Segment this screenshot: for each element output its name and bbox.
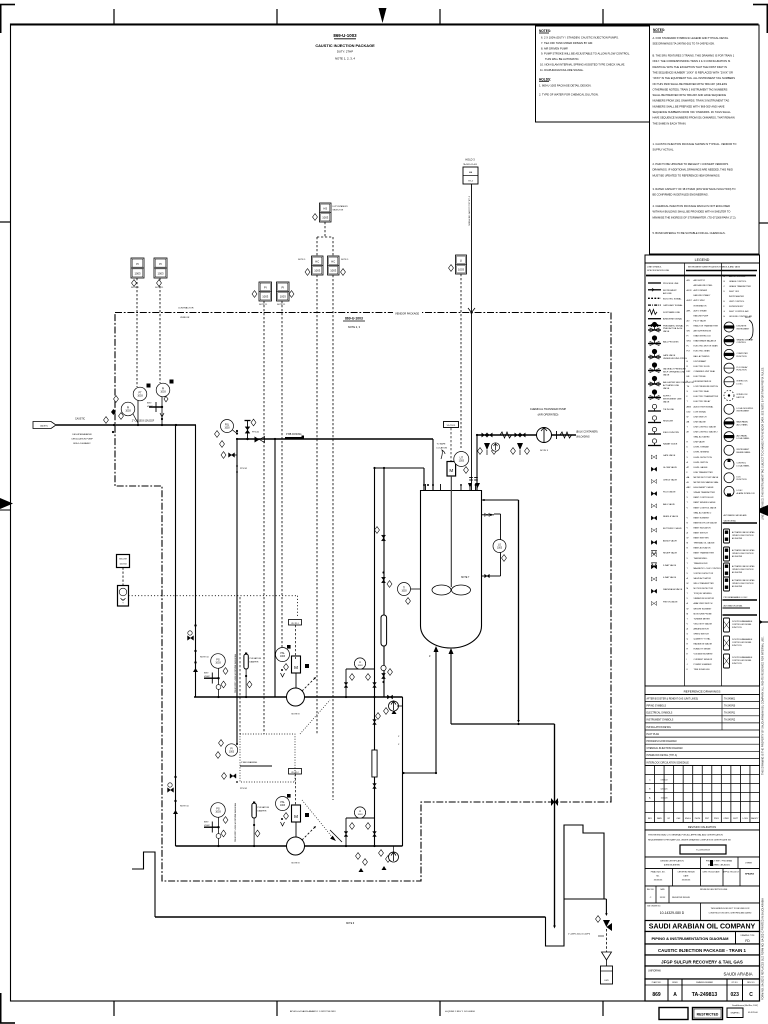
svg-text:PRESSURE INDICATOR 869-PI-1003: PRESSURE INDICATOR 869-PI-1003 DETAIL [234,803,237,842]
svg-text:869-U-1003: 869-U-1003 [345,317,363,321]
svg-text:SELECTOR: SELECTOR [333,210,344,212]
svg-text:IDENTICAL WITH THE EXCEPTION T: IDENTICAL WITH THE EXCEPTION THAT THE FI… [653,65,728,69]
left edge tick [0,221,11,223]
svg-text:M: M [449,468,453,473]
revision description row [645,886,760,903]
svg-text:APPVD. HOLD/ DT: APPVD. HOLD/ DT [723,871,740,874]
signal dashed riser to box row C right [159,278,161,383]
svg-text:TIME SCHEDULE: TIME SCHEDULE [694,669,711,671]
svg-text:FAILURE PUMP: FAILURE PUMP [694,314,709,317]
svg-text:AWS: AWS [687,405,692,408]
svg-text:ALARM INTERLOCK: ALARM INTERLOCK [737,492,756,495]
svg-text:DATE: DATE [657,817,663,820]
svg-text:VALVE/ACT PRESSURE: VALVE/ACT PRESSURE [663,368,686,371]
svg-text:(AIR OPERATED): (AIR OPERATED) [538,413,559,417]
svg-text:1003: 1003 [135,271,141,275]
svg-text:5. BUND MATERIAL TO BE SUITABL: 5. BUND MATERIAL TO BE SUITABLE FOR ALL … [653,231,726,235]
svg-text:02/11/21: 02/11/21 [661,789,668,791]
corner mark bottom-left [0,993,2,1023]
svg-text:ELECTRIC SIGNAL: ELECTRIC SIGNAL [663,297,682,300]
svg-text:SELF OPERATED LINE: SELF OPERATED LINE [663,371,686,374]
legend bracket and small boxes right column bottom [724,529,730,543]
svg-text:LINE TRANSMITTER: LINE TRANSMITTER [694,471,714,474]
svg-text:DATE: DATE [684,875,690,878]
pump P1 VD tag box [289,620,302,626]
svg-text:1003: 1003 [322,216,328,220]
svg-text:POWER SCANNER: POWER SCANNER [694,663,712,666]
svg-text:DUTY: 2THP: DUTY: 2THP [337,50,353,54]
tank top line [421,490,482,492]
svg-text:RADIATION GAUGE: RADIATION GAUGE [694,643,713,646]
svg-text:NOTE 11: NOTE 11 [259,304,268,306]
svg-text:8. AIR DRIVEN PUMP.: 8. AIR DRIVEN PUMP. [541,46,568,50]
svg-text:ELECTRIC RELAY: ELECTRIC RELAY [694,400,712,403]
svg-text:REDUCER: REDUCER [663,421,674,423]
drawing title row 1 [645,944,760,955]
svg-text:ELECTRIC FLUID: ELECTRIC FLUID [694,366,711,368]
svg-text:INSTRUMENT LINE: INSTRUMENT LINE [663,399,682,401]
svg-text:INSTALLATION DETAIL: INSTALLATION DETAIL [647,726,672,729]
svg-text:SPECIFICATION LINE: SPECIFICATION LINE [647,269,670,272]
svg-text:SEAL ACTUATED: SEAL ACTUATED [694,436,711,439]
agitator shaft [450,476,452,587]
svg-text:INST: INST [204,673,209,675]
svg-text:SEQUENCE NUMBERS FROM ‘001’ ON: SEQUENCE NUMBERS FROM ‘001’ ONWARDS. ZC … [653,110,732,114]
svg-text:BUTTERFLY VALVE: BUTTERFLY VALVE [663,527,682,530]
LSL circle row2 [276,797,290,811]
main caustic feed pipe [56,424,196,426]
svg-text:AUTOMATION DETAIL: AUTOMATION DETAIL [724,605,743,608]
svg-text:FUNCTION: FUNCTION [737,479,748,481]
svg-text:LEVEL DETECTION: LEVEL DETECTION [694,457,713,459]
corner mark top-right [753,4,768,6]
svg-text:DISTURBANT: DISTURBANT [694,360,708,363]
svg-text:PULSATION: PULSATION [250,657,262,660]
long bottom drain header [155,916,546,918]
svg-text:AIR LINE: AIR LINE [663,292,672,295]
svg-text:REQUIREMENTS PER SAEP-334, UND: REQUIREMENTS PER SAEP-334, UNDER DRAWING… [648,839,731,842]
svg-text:023: 023 [731,992,740,998]
svg-text:INSTRUMENT: INSTRUMENT [737,411,751,413]
transfer line valves [482,433,488,437]
svg-text:LWS: LWS [604,980,609,982]
svg-text:CAPILLARY SIGNAL: CAPILLARY SIGNAL [663,304,683,307]
level instrument box right [456,255,467,274]
svg-text:LI: LI [460,259,462,263]
svg-text:AUTO STEAM: AUTO STEAM [694,309,707,312]
svg-text:OP. NO.: OP. NO. [731,982,738,984]
row1 right valves on riser [387,695,392,699]
svg-text:GRAPHIC: GRAPHIC [730,1012,740,1015]
long vertical B from header [383,468,385,697]
svg-text:ANGLE VALVE: ANGLE VALVE [663,539,677,542]
svg-text:SHARED DISPLAY: SHARED DISPLAY [737,338,754,341]
drain pocket U [546,825,605,946]
svg-text:MAGNETIC LOGIC CONTROL: MAGNETIC LOGIC CONTROL [694,567,723,570]
drain drop vertical [518,500,520,721]
svg-text:W: W [687,538,689,540]
svg-text:1003: 1003 [458,268,464,272]
dashed signal x240 column [239,597,241,734]
svg-text:2"-CA-1003-12A2C0F: 2"-CA-1003-12A2C0F [132,420,155,423]
svg-text:AS SHOWN: AS SHOWN [732,555,743,558]
svg-text:DAMPER: DAMPER [250,660,259,663]
svg-text:AIR SUPPLY: AIR SUPPLY [694,279,706,282]
svg-text:TA-2499-12-403: TA-2499-12-403 [463,163,477,166]
PG gauge row2 [211,803,226,818]
svg-text:VISCOSITY GAUGE: VISCOSITY GAUGE [694,622,713,625]
svg-text:LEVEL GAUGE: LEVEL GAUGE [694,466,709,469]
svg-text:C: C [749,992,753,998]
svg-text:869-G-1006A/B/C: 869-G-1006A/B/C [73,442,91,445]
svg-text:NUMBERS SHALL BE PREFIXED WITH: NUMBERS SHALL BE PREFIXED WITH ‘869-300’… [653,104,725,108]
svg-text:MUST BE UPDATED TO REFERENCE N: MUST BE UPDATED TO REFERENCE NEW DRAWING… [653,173,721,177]
svg-text:CONSTRUCTION UNTIL CERTIFIED A: CONSTRUCTION UNTIL CERTIFIED AND DATED [709,912,752,915]
svg-text:A. FOR STANDARD SYMBOLS/ LEGEN: A. FOR STANDARD SYMBOLS/ LEGEND AND TYPI… [653,36,729,40]
nozzle arrows into tank [468,483,472,488]
svg-text:FUNCTION: FUNCTION [737,356,748,358]
svg-text:SHALL BE PREFIXED WITH ‘869-20: SHALL BE PREFIXED WITH ‘869-200’ AND HAV… [653,93,727,97]
svg-text:SEE DRAWINGS TA-249760-001 TO: SEE DRAWINGS TA-249760-001 TO TA-249762-… [653,42,715,46]
svg-text:W: W [687,583,689,585]
sample cylinder capsule [381,615,387,646]
drain leg from tank bottom header [554,724,556,926]
svg-text:AUTO RENEW: AUTO RENEW [694,289,708,292]
shared display box A1 [259,282,272,301]
legend panel frame [645,255,760,686]
svg-text:10. NON-SLAM INTERNAL SPRING A: 10. NON-SLAM INTERNAL SPRING ASSISTED TY… [540,63,625,67]
svg-text:1003: 1003 [224,427,230,429]
svg-text:3. RATED CAPACITY OF 38 FT3/HR: 3. RATED CAPACITY OF 38 FT3/HR (20% W/W … [653,187,736,191]
svg-text:GATE VALVE: GATE VALVE [663,354,676,357]
mixing tank vessel shell [421,491,482,649]
svg-text:VALVE: VALVE [663,401,670,404]
svg-text:PI: PI [230,748,233,750]
drain stub label mid [240,765,272,767]
svg-text:ELECTRIC TRANSMITTER: ELECTRIC TRANSMITTER [694,395,719,398]
svg-text:SUPERVISORY: SUPERVISORY [729,306,744,308]
svg-text:LIMIT CONTROL: LIMIT CONTROL [729,301,745,303]
svg-text:PAINT SENSING VALVE: PAINT SENSING VALVE [694,501,717,504]
svg-text:DIAPHRAGM VALVE: DIAPHRAGM VALVE [663,588,683,591]
svg-text:XX/XX/XX: XX/XX/XX [682,880,691,882]
riser valves column x374 between rows [372,750,377,777]
svg-text:PI: PI [264,286,267,290]
svg-text:DCS: DCS [737,476,742,478]
svg-text:OPEN/CLOSE POSITION: OPEN/CLOSE POSITION [732,583,754,585]
svg-text:FAILURE STEADY: FAILURE STEADY [694,294,712,297]
svg-text:KVAR INTERLOCK: KVAR INTERLOCK [694,335,712,338]
svg-text:1003 B4: 1003 B4 [119,564,126,566]
svg-text:SOFTWARE LINE: SOFTWARE LINE [663,311,681,314]
svg-text:PROJ: PROJ [714,818,719,820]
notes box right [650,25,760,254]
svg-text:VALVE DETAIL: VALVE DETAIL [724,520,737,523]
drain valve to sewer [596,916,601,923]
vertical from dosing to pump suction [274,439,276,697]
svg-text:1003: 1003 [330,269,336,273]
svg-text:NOTE 9: NOTE 9 [540,450,549,452]
pump P2 motor box [292,805,301,822]
svg-text:Saudi Aramco (Mar/Rev, 2007): Saudi Aramco (Mar/Rev, 2007) [732,1004,758,1007]
svg-text:VORTEX DETECTOR: VORTEX DETECTOR [694,573,714,575]
svg-text:11. DIAPHRAGM FAILURE SIGNAL.: 11. DIAPHRAGM FAILURE SIGNAL. [540,68,584,72]
tank bottom nozzles [435,648,437,773]
svg-text:INTEGRATOR: INTEGRATOR [694,304,707,307]
svg-text:1003: 1003 [358,665,364,667]
svg-text:LOCAL PANEL: LOCAL PANEL [737,437,751,440]
svg-text:THERMOWELL: THERMOWELL [694,558,709,560]
right riser x402 [402,697,404,846]
svg-text:PSL: PSL [225,424,230,426]
diamonds under C boxes [132,280,137,287]
left edge arrow marker [0,498,13,509]
svg-text:HYMC: HYMC [147,406,153,408]
svg-text:PSL: PSL [280,653,285,655]
left staircase [132,852,155,917]
air supply circle symbol [491,443,499,451]
svg-text:FINAL R&TL NO.: FINAL R&TL NO. [651,871,666,874]
dotted signal line to pumps [129,595,298,597]
signal dash to local panel instrument [122,568,124,586]
svg-text:LOCATION: LOCATION [437,447,448,450]
svg-text:03-XXX-00: 03-XXX-00 [748,1012,759,1014]
svg-text:CONTRACTOR: CONTRACTOR [178,307,194,310]
svg-text:NOTE 11: NOTE 11 [277,304,286,306]
hose to bulk container [553,434,558,436]
pump row2 header line [176,845,403,847]
svg-text:LEGEND: LEGEND [695,258,710,262]
svg-text:TA-249813: TA-249813 [692,992,718,998]
svg-text:DCS PROGRAMMABLE: DCS PROGRAMMABLE [732,638,753,641]
revision validation bar [645,823,760,831]
svg-text:SUPPLY: SUPPLY [663,396,672,398]
svg-text:PLUG VALVE: PLUG VALVE [663,491,676,494]
hold3 line down to tank [471,184,473,490]
pump row1 header line [194,696,403,698]
dosing elbow down to tank [432,439,434,490]
svg-text:PLANT NO.: PLANT NO. [652,981,662,984]
svg-text:SAFETY: SAFETY [751,817,759,820]
svg-text:P BB DOSING: P BB DOSING [286,433,302,436]
svg-text:UNLOADING: UNLOADING [576,436,590,439]
angle valve below PSL [231,454,237,456]
svg-text:INTERLOCK: INTERLOCK [737,394,749,396]
svg-text:JFGP SULFUR RECOVERY & TAIL GA: JFGP SULFUR RECOVERY & TAIL GAS [661,960,743,965]
svg-text:7. TEA OFF TANK MIXER DRIVEN B: 7. TEA OFF TANK MIXER DRIVEN BY AIR. [541,41,593,45]
svg-text:OPEN/CLOSE POSITION: OPEN/CLOSE POSITION [732,569,754,571]
svg-text:OPER: OPER [723,818,729,820]
svg-text:BE CONFIRMED IN DETAILED ENGIN: BE CONFIRMED IN DETAILED ENGINEERING. [653,193,709,197]
svg-text:PLC/ RELAY: PLC/ RELAY [737,366,749,369]
svg-text:HS: HS [323,207,327,211]
notes box left [536,26,650,122]
svg-text:FD: FD [745,939,750,943]
svg-text:3-WAY VALVE: 3-WAY VALVE [663,564,677,567]
svg-text:LEVEL STREAM: LEVEL STREAM [694,446,709,449]
svg-text:WITHIN A BUILDING SHALL BE PRO: WITHIN A BUILDING SHALL BE PROVIDED WITH… [653,210,731,214]
reference drawings table [645,695,760,766]
svg-text:CAUSTIC: CAUSTIC [40,425,49,428]
LIT instrument circle [454,452,469,467]
svg-text:BALL ACTUATED: BALL ACTUATED [694,355,710,358]
svg-text:LINE CONTROL GAUGE 2: LINE CONTROL GAUGE 2 [694,431,719,434]
svg-text:VALVE ACTUATOR: VALVE ACTUATOR [694,577,712,580]
svg-text:THIS DRAWING IS THE PROPERTY O: THIS DRAWING IS THE PROPERTY OF SAUDI AR… [762,636,765,775]
diamonds A cluster [252,291,257,298]
bottom outlet horizontal to drain leg [451,723,555,725]
svg-text:VD-TR-1: VD-TR-1 [291,623,298,625]
svg-text:PAINT ELEMENT: PAINT ELEMENT [694,516,710,519]
strainer arrows under transfer line [484,443,490,450]
svg-text:11/05/20: 11/05/20 [661,798,668,800]
svg-text:1003: 1003 [459,459,465,462]
svg-text:ACTUATED VALVE DETAIL: ACTUATED VALVE DETAIL [732,579,755,582]
svg-text:INSTRUMENT SYMBOLS: INSTRUMENT SYMBOLS [647,720,674,722]
svg-text:PP1C02: PP1C02 [240,468,247,470]
graphic stamp small [727,1008,743,1018]
svg-text:CURRENT SENSOR: CURRENT SENSOR [694,659,713,661]
svg-text:THIS WILL BE AUTOMATIC.: THIS WILL BE AUTOMATIC. [545,57,580,61]
svg-text:07/02/22: 07/02/22 [661,780,668,782]
svg-text:OPEN/CLOSE POSITION: OPEN/CLOSE POSITION [732,553,754,555]
svg-text:869: 869 [652,992,661,998]
svg-text:INTERLOCK CIRCULATION SCHEDULE: INTERLOCK CIRCULATION SCHEDULE [647,761,690,764]
svg-text:TA-249762: TA-249762 [724,719,736,722]
svg-text:1003: 1003 [280,805,286,807]
pressure transmitter PT-1003 [133,387,147,401]
svg-text:VD-TR-11: VD-TR-11 [447,425,457,427]
svg-text:CAUSTIC INJECTION PACKAGE: CAUSTIC INJECTION PACKAGE [315,43,375,48]
svg-text:1. CAUSTIC INJECTION PACKAGE S: 1. CAUSTIC INJECTION PACKAGE SHOWN IS TY… [653,142,737,146]
svg-text:VOLTAGE ELEMENT: VOLTAGE ELEMENT [694,653,714,656]
signal risers from B boxes [316,275,318,734]
svg-text:NOTES:: NOTES: [539,29,551,33]
svg-text:UNDERGROUND PIPING: UNDERGROUND PIPING [663,358,687,360]
svg-text:LINE GAUGE: LINE GAUGE [694,420,707,423]
svg-text:FIELD: FIELD [745,317,751,319]
svg-text:DESIGN CERTIFICATION: DESIGN CERTIFICATION [660,860,684,863]
agitator motor M box [447,462,456,477]
restricted stamp [693,1008,723,1020]
svg-text:NOTE 8: NOTE 8 [292,714,301,716]
svg-text:SPEAKS: SPEAKS [745,873,755,876]
svg-text:LINE SYMBOL: LINE SYMBOL [647,267,662,269]
svg-text:M: M [294,665,298,670]
svg-text:AREA MONITOR: AREA MONITOR [694,627,710,630]
svg-text:COMPUTER: COMPUTER [737,353,749,355]
svg-text:“3XXX” IN THE EQUIPMENT TAG. A: “3XXX” IN THE EQUIPMENT TAG. ALL INSTRUM… [653,76,736,80]
long vertical A from header [374,468,376,846]
svg-text:9. PUMP STROKE WILL BE ADJUSTA: 9. PUMP STROKE WILL BE ADJUSTABLE TO ALL… [541,52,630,56]
svg-text:TRANSDUCER: TRANSDUCER [694,562,708,565]
relief valve circle bottom riser [389,852,399,862]
svg-text:LOW PRESSURE SWITCH: LOW PRESSURE SWITCH [694,386,719,388]
svg-text:ELECTRICAL: ELECTRICAL [694,375,707,378]
sample valve on left column [381,535,385,541]
svg-text:CONTROLLER DETAIL: CONTROLLER DETAIL [732,623,751,626]
legend column dividers [684,263,686,686]
svg-text:AT5010-04 SAUDI ARAMCO 1-24: AT5010-04 SAUDI ARAMCO 1-24297 TA-2453 [290,1010,336,1013]
svg-text:AIR FAILURE STEEL: AIR FAILURE STEEL [694,284,714,287]
shared display box C2 [154,258,167,278]
svg-text:BALL VALVE: BALL VALVE [663,503,675,506]
svg-text:PROCESS FLOW DIAGRAM: PROCESS FLOW DIAGRAM [647,740,677,743]
svg-text:ABC: ABC [687,486,692,489]
right edge tick [758,222,768,224]
svg-text:1003: 1003 [215,661,221,664]
svg-text:ENGG: ENGG [685,818,691,820]
right edge arrow marker [755,505,768,516]
feed branch vertical to pump train A [175,425,177,846]
svg-text:PIPING & INSTRUMENTATION DIAGR: PIPING & INSTRUMENTATION DIAGRAM [652,936,730,941]
pump P2 VD tag box [289,769,302,775]
svg-text:UNF/DRAW: UNF/DRAW [648,970,662,973]
svg-text:HOLD 3: HOLD 3 [465,158,475,162]
TI instrument left of tank [398,583,411,596]
svg-text:GATE VALVE: GATE VALVE [663,454,676,457]
GIS order number row [645,903,760,921]
suction valve row1 [188,636,194,641]
PG gauge row1 [211,654,226,669]
svg-text:LEVEL SENSING: LEVEL SENSING [694,452,710,454]
svg-text:LOGIC: LOGIC [737,383,744,385]
drawing number row [645,979,760,1001]
corner mark top-left [0,4,15,6]
svg-text:SUPT: SUPT [733,818,739,820]
vendor package dash-dot boundary [115,313,611,882]
svg-text:PAINT INDICATOR: PAINT INDICATOR [694,526,712,529]
svg-text:ELECTRIC MOTOR GEAR: ELECTRIC MOTOR GEAR [694,345,719,348]
svg-text:1003: 1003 [314,269,320,273]
svg-text:DESUPERHEATER: DESUPERHEATER [72,433,92,436]
svg-text:REFERENCE DRAWINGS: REFERENCE DRAWINGS [684,690,721,694]
pulsation damper row1 [244,654,248,669]
drain funnel [605,929,607,952]
svg-text:ON THIS P&ID SHALL BE PREFIXED: ON THIS P&ID SHALL BE PREFIXED WITH ‘869… [653,82,728,86]
svg-text:LBD: LBD [687,411,691,413]
svg-text:METER DISCHARGE SEAL: METER DISCHARGE SEAL [694,481,720,484]
svg-text:6. 2 X 100% (DUTY / STANDBY) C: 6. 2 X 100% (DUTY / STANDBY) CAUSTIC INJ… [541,36,619,40]
svg-text:ELECTRIC SEAL: ELECTRIC SEAL [694,390,710,393]
svg-text:1003: 1003 [401,590,407,592]
valve stack on sample column above header [381,665,386,670]
agitator blades [432,585,451,595]
svg-text:2"-CS-1012-1C02P0 (TIE POINT): 2"-CS-1012-1C02P0 (TIE POINT) [468,196,470,226]
svg-text:DISCRETE: DISCRETE [737,326,748,328]
svg-text:ABOVE GROUND: ABOVE GROUND [729,275,746,278]
svg-text:1003: 1003 [280,656,286,658]
svg-text:REVISION DESCRIPTION LINE: REVISION DESCRIPTION LINE [700,889,728,891]
reference drawings header [645,686,760,695]
svg-text:AIRBORNE SIGNAL: AIRBORNE SIGNAL [663,318,683,321]
pressure gauge PG-1003 [121,402,135,416]
angle valve mid [230,774,236,779]
svg-text:TIE IN LINE: TIE IN LINE [663,409,675,411]
svg-text:FUNCTION: FUNCTION [732,627,742,629]
svg-text:HIGH SAFETY VALVE: HIGH SAFETY VALVE [694,486,715,489]
calibration loop row1 [345,669,347,697]
svg-text:AUX. PANEL: AUX. PANEL [737,423,749,426]
svg-text:MOISTURE PROBE: MOISTURE PROBE [694,613,713,615]
svg-text:P&PM: P&PM [695,818,701,820]
svg-text:XX/XX: XX/XX [660,897,666,899]
svg-text:PISTON VALVE: PISTON VALVE [663,600,678,603]
svg-text:INST: INST [204,822,209,824]
svg-text:(BULK CONTAINER): (BULK CONTAINER) [576,431,598,434]
pump P1 motor box [292,656,301,673]
svg-text:PROGRAMMABLE LOGIC: PROGRAMMABLE LOGIC [724,596,748,599]
